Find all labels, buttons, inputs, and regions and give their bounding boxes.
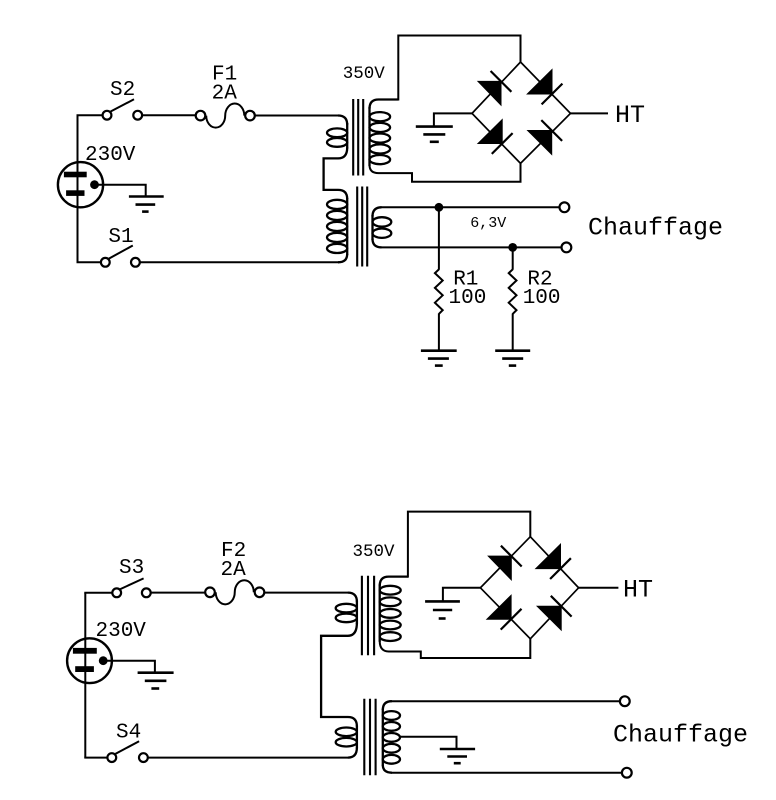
transformer T2 core (350V section) — [362, 576, 374, 656]
wire: S2 to F1 — [143, 114, 196, 116]
fuse F2 — [205, 580, 264, 604]
ground (R1) — [421, 351, 457, 366]
wire: 350V upper lead to bridge top (bottom) — [408, 512, 530, 578]
terminal: Chauffage upper (top circuit) — [560, 202, 570, 212]
wire: 6.3V upper lead — [381, 206, 560, 208]
wire: plug earth stub (bottom) — [106, 661, 155, 673]
wire: top line corner to S3 — [84, 592, 111, 594]
wire: 350V lower lead to bridge bottom — [370, 162, 521, 181]
wire: F1 to transformer primary — [255, 115, 339, 117]
transformer T2 secondary 350V winding — [380, 577, 408, 642]
bridge rectifier diamond (top) — [472, 62, 571, 163]
wire: bridge minus stub (bottom) — [443, 588, 481, 602]
svg-text:350V: 350V — [353, 542, 396, 562]
wire: vertical corner to S1 — [77, 261, 101, 263]
wire: HT output (top) — [571, 112, 609, 114]
terminal: Chauffage lower (bottom circuit) — [622, 768, 632, 778]
node: junction dot on upper 6.3V wire — [435, 203, 444, 212]
diode D8 (bottom-right arm, bottom bridge) — [537, 596, 571, 630]
svg-text:100: 100 — [449, 287, 487, 310]
svg-text:HT: HT — [623, 576, 653, 605]
diode D4 (bottom-right arm) — [528, 120, 562, 154]
wire: 6.3V lower lead — [381, 246, 562, 248]
wire: primary series link — [324, 148, 348, 199]
transformer T1 primary lower section — [327, 198, 347, 262]
transformer T2 primary upper section — [336, 593, 357, 624]
fuse F1 — [196, 104, 255, 128]
svg-text:100: 100 — [523, 287, 561, 310]
wire: 6.3V lower lead (bottom) — [391, 772, 622, 774]
wire: left vertical (plug to switches, bottom) — [84, 593, 86, 758]
transformer T2 primary lower section — [336, 726, 357, 758]
svg-text:350V: 350V — [343, 64, 386, 84]
svg-text:S1: S1 — [108, 226, 133, 249]
diode D7 (left-bottom arm, bottom bridge) — [487, 595, 522, 629]
diode D2 (top-right arm) — [527, 70, 562, 105]
wire: F2 to transformer primary — [264, 592, 348, 594]
ground (R2) — [495, 351, 530, 366]
terminal: Chauffage upper (bottom circuit) — [620, 696, 630, 706]
resistor R2 — [509, 247, 517, 350]
wire: left vertical (plug to switches) — [77, 115, 79, 262]
transformer T1 secondary 6.3V winding — [373, 207, 392, 247]
wire: centre tap stub — [400, 737, 457, 749]
transformer T1 secondary 350V winding — [370, 100, 399, 167]
wire: vertical corner to S4 — [84, 757, 107, 759]
switch S4 — [107, 741, 147, 762]
bridge rectifier diamond (bottom) — [480, 537, 578, 639]
transformer T1 core (6.3V section) — [357, 187, 367, 267]
ground (bridge, top circuit) — [416, 127, 453, 142]
diode D5 (left-top arm, bottom bridge) — [488, 546, 521, 580]
transformer T2 secondary 6.3V winding — [383, 701, 400, 773]
resistor R1 — [435, 207, 443, 350]
transformer T1 core (350V section) — [353, 99, 363, 176]
wire: primary series link (bottom) — [321, 623, 357, 727]
svg-text:6,3V: 6,3V — [470, 215, 506, 232]
wire: plug earth stub — [97, 185, 146, 197]
svg-text:Chauffage: Chauffage — [613, 721, 748, 750]
svg-text:HT: HT — [615, 101, 645, 130]
wire: S1 to transformer — [140, 261, 338, 263]
ground (centre tap) — [440, 749, 475, 763]
wire: bridge minus stub — [434, 113, 472, 126]
wire: top line corner to S2 — [77, 114, 103, 116]
terminal: Chauffage lower (top circuit) — [562, 243, 572, 253]
svg-text:230V: 230V — [96, 620, 147, 643]
switch S2 — [103, 99, 143, 119]
switch S1 — [101, 246, 140, 267]
svg-text:2A: 2A — [221, 559, 247, 582]
svg-text:2A: 2A — [212, 82, 238, 105]
switch S3 — [112, 578, 150, 597]
diode D6 (top-right arm, bottom bridge) — [536, 544, 571, 579]
svg-text:230V: 230V — [85, 144, 136, 167]
wire: 350V lower lead to bridge bottom (bottom) — [380, 638, 531, 658]
diode D3 (left-bottom arm) — [478, 120, 513, 154]
diode D1 (left-top arm) — [478, 71, 511, 105]
svg-text:S3: S3 — [119, 557, 144, 580]
transformer T2 core (6.3V section) — [364, 699, 375, 776]
wire: S3 to F2 — [151, 592, 205, 594]
ground (plug, top circuit) — [129, 197, 164, 212]
ground (bridge, bottom circuit) — [425, 601, 460, 618]
wire: HT output (bottom) — [579, 587, 619, 589]
wire: 6.3V upper lead (bottom) — [391, 700, 620, 702]
node: junction dot on lower 6.3V wire — [508, 243, 517, 252]
transformer T1 primary upper section — [327, 116, 347, 149]
wire: S4 to transformer — [148, 757, 348, 759]
plug 230V (bottom) — [67, 638, 112, 683]
wire: 350V upper lead to bridge top — [398, 36, 520, 101]
plug 230V (top) — [58, 162, 103, 207]
svg-text:S2: S2 — [110, 79, 135, 102]
ground (plug, bottom circuit) — [138, 673, 174, 689]
svg-text:Chauffage: Chauffage — [588, 213, 723, 242]
